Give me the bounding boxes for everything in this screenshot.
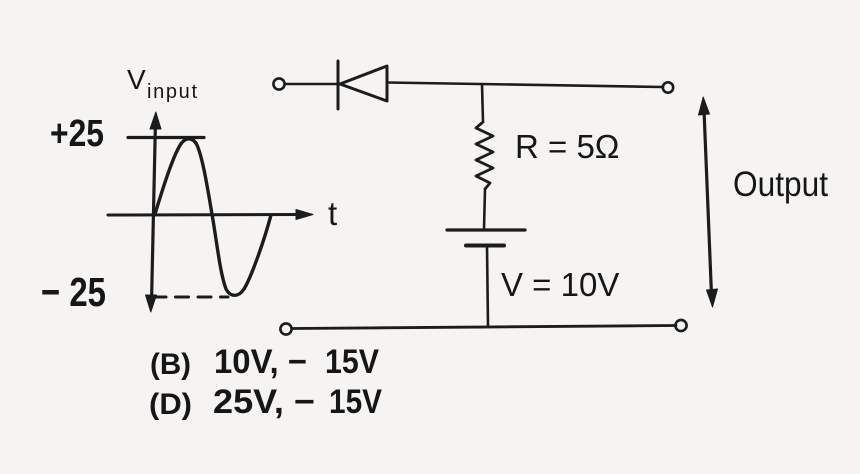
- svg-text:10V, −: 10V, −: [214, 343, 307, 381]
- svg-text:V: V: [127, 64, 146, 95]
- svg-text:+25: +25: [50, 113, 104, 155]
- svg-text:Output: Output: [733, 165, 828, 204]
- svg-text:(D): (D): [149, 388, 192, 421]
- svg-text:t: t: [328, 195, 337, 232]
- svg-text:25V, −: 25V, −: [213, 383, 315, 421]
- svg-text:15V: 15V: [329, 383, 382, 421]
- svg-text:input: input: [147, 81, 197, 103]
- svg-text:(B): (B): [150, 348, 191, 381]
- svg-text:− 25: − 25: [41, 269, 106, 315]
- svg-text:R = 5Ω: R = 5Ω: [515, 128, 619, 165]
- svg-text:15V: 15V: [325, 343, 379, 381]
- svg-text:V = 10V: V = 10V: [501, 266, 619, 303]
